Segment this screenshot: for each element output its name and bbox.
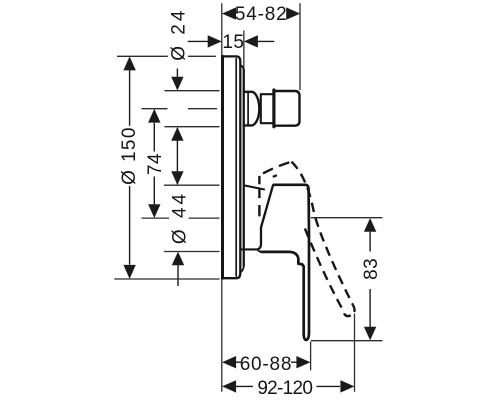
- knob grip body: [274, 91, 300, 126]
- dim Ø150 line: [129, 70, 131, 264]
- knob-end extension line: [299, 3, 301, 90]
- plate front face line: [243, 70, 245, 266]
- arrow 60-88 right: [296, 356, 310, 368]
- dim Ø24 line upper: [176, 69, 178, 78]
- arrow 92-120 left: [222, 380, 236, 392]
- dashed-tip extension line (92-120 right): [354, 314, 356, 392]
- arrow 54-82 right: [286, 7, 300, 19]
- 83 bottom extension line: [311, 340, 382, 342]
- hub sleeve bottom edge: [241, 248, 258, 250]
- dim Ø24/Ø44 shared line: [176, 128, 178, 184]
- knob top extension line: [165, 90, 220, 92]
- dashed small edge: [273, 175, 277, 177]
- dim 92-120 line bits: [236, 385, 341, 387]
- dimension texts: [119, 4, 382, 399]
- dashed lever front edge near hub: [258, 176, 260, 217]
- dashed lever tip: [343, 304, 354, 316]
- knob stem: [261, 94, 273, 123]
- svg-text:Ø 44: Ø 44: [170, 191, 191, 244]
- wall extension line: [221, 3, 223, 392]
- arrow 74 top: [148, 109, 160, 123]
- arrow Ø24 bottom (points up): [171, 127, 183, 141]
- dim 74 line: [153, 123, 155, 205]
- svg-text:54-82: 54-82: [235, 4, 288, 25]
- dim 83 line: [369, 232, 371, 327]
- 83 top extension line: [311, 217, 383, 219]
- plate-front extension line (15 right): [243, 31, 245, 70]
- dim 15 tails: [188, 40, 275, 42]
- dim Ø44 lower tail: [177, 265, 179, 287]
- arrow Ø44 top (points down): [171, 171, 183, 185]
- svg-text:15: 15: [222, 32, 244, 53]
- hub bottom extension line: [164, 251, 220, 253]
- plate outer outline: [222, 56, 240, 278]
- svg-text:92-120: 92-120: [257, 378, 312, 399]
- svg-text:74: 74: [145, 153, 166, 175]
- arrow 60-88 left: [222, 356, 236, 368]
- plate bottom extension line: [114, 278, 219, 280]
- hub top extension line: [164, 184, 220, 186]
- arrow 54-82 left: [222, 7, 236, 19]
- arrow 15 left (points right): [208, 35, 222, 47]
- extension lines group: [114, 3, 382, 392]
- lever bottom step to sleeve: [258, 249, 262, 252]
- plate left (wall) edge thick: [221, 56, 224, 278]
- dim 60-88 line bits: [236, 361, 298, 363]
- hub top edge: [244, 185, 264, 189]
- knob sleeve outline: [244, 92, 260, 126]
- arrow 92-120 right: [340, 380, 354, 392]
- knob axis line: [142, 108, 218, 110]
- lever front diagonal edge: [258, 186, 273, 250]
- arrow Ø24 top (points down): [171, 77, 183, 91]
- svg-text:Ø 24: Ø 24: [169, 8, 190, 61]
- arrow Ø150 bottom: [123, 265, 135, 279]
- solid object: [222, 56, 309, 340]
- dashed lever top edge: [263, 162, 292, 174]
- plate front bottom bevel: [240, 266, 243, 273]
- svg-text:Ø 150: Ø 150: [119, 126, 140, 185]
- dashed lever (swung positions): [259, 162, 354, 317]
- lever outline: [261, 185, 309, 340]
- arrow Ø44 bottom (points up): [172, 252, 184, 266]
- knob grip flange: [272, 90, 275, 127]
- arrowheads group: [123, 7, 376, 392]
- dashed lever outer edge: [292, 162, 353, 305]
- lever-tip extension line (60-88 right): [310, 342, 312, 371]
- arrow 83 top: [364, 218, 376, 232]
- svg-text:83: 83: [361, 258, 382, 280]
- arrow Ø150 top: [123, 56, 135, 70]
- arrow 74 bottom: [148, 204, 160, 218]
- plate top extension line: [117, 55, 216, 57]
- plate front top bevel: [240, 65, 243, 70]
- arrow 15 right (points left): [244, 35, 258, 47]
- dashed lever inner edge: [305, 229, 343, 311]
- dimension lines group: [130, 41, 371, 386]
- svg-text:60-88: 60-88: [240, 354, 293, 375]
- hub axis line: [142, 217, 220, 219]
- knob bottom extension line: [165, 126, 220, 128]
- arrow 83 bottom: [364, 327, 376, 341]
- knob sleeve inner line: [247, 92, 249, 124]
- plate inner frame line: [235, 59, 237, 276]
